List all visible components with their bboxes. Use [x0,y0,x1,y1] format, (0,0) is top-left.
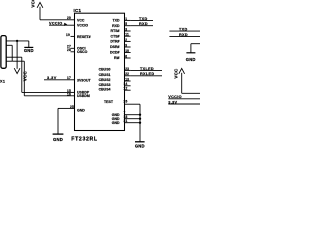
svg-text:GND: GND [135,143,145,148]
svg-text:3V3OUT: 3V3OUT [77,78,91,82]
svg-text:GND: GND [186,57,196,62]
svg-text:21: 21 [124,119,128,123]
svg-text:20: 20 [67,16,71,20]
svg-text:12: 12 [124,87,128,91]
svg-text:16: 16 [67,92,71,96]
svg-text:19: 19 [66,33,70,37]
svg-text:VCC: VCC [23,71,28,82]
svg-text:DSR#: DSR# [110,45,119,49]
svg-text:TXD: TXD [113,19,120,23]
svg-text:VCC: VCC [174,68,179,79]
svg-text:RXD: RXD [112,24,120,28]
svg-text:3.3V: 3.3V [168,100,177,104]
svg-text:14: 14 [124,82,128,86]
svg-text:RESET#: RESET# [77,35,91,39]
svg-text:VCC: VCC [77,18,85,22]
svg-text:GND: GND [77,109,85,113]
svg-text:OSCO: OSCO [77,50,88,54]
svg-text:26: 26 [124,100,128,104]
svg-text:CTS#: CTS# [111,34,120,38]
svg-text:11: 11 [125,33,129,37]
svg-text:6: 6 [125,54,127,58]
svg-text:17: 17 [67,76,71,80]
svg-text:13: 13 [125,77,129,81]
svg-text:23: 23 [125,67,129,71]
svg-text:1: 1 [125,17,127,21]
svg-text:2: 2 [125,38,127,42]
svg-text:GND: GND [112,121,120,125]
svg-text:3: 3 [125,27,127,31]
svg-text:GND: GND [53,137,63,142]
svg-text:10: 10 [125,49,129,53]
svg-text:RXLED: RXLED [140,72,154,76]
svg-text:GND: GND [24,48,34,53]
svg-text:TXD: TXD [139,17,148,21]
svg-text:22: 22 [125,72,129,76]
svg-text:CBUS0: CBUS0 [99,68,111,72]
svg-text:TEST: TEST [104,100,114,104]
svg-text:3.3V: 3.3V [47,76,57,80]
svg-text:CBUS3: CBUS3 [99,83,111,87]
svg-text:IC1: IC1 [74,8,82,13]
svg-text:VCCIO: VCCIO [168,95,182,99]
svg-text:FT232RL: FT232RL [71,136,98,142]
svg-text:DTR#: DTR# [110,40,119,44]
svg-text:28: 28 [67,48,71,52]
svg-text:CBUS1: CBUS1 [99,73,111,77]
svg-text:CBUS4: CBUS4 [99,88,111,92]
svg-text:TXD: TXD [179,28,188,32]
svg-text:TXLED: TXLED [140,67,154,71]
svg-text:RXD: RXD [179,33,188,37]
svg-text:5: 5 [125,22,127,26]
svg-text:25: 25 [70,105,74,109]
svg-text:VCCIO: VCCIO [77,24,88,28]
svg-text:9: 9 [125,43,127,47]
svg-text:CBUS2: CBUS2 [99,78,111,82]
svg-text:VCC: VCC [31,0,36,8]
svg-text:RI#: RI# [114,56,120,60]
svg-text:RTS#: RTS# [111,29,120,33]
svg-text:VCCIO: VCCIO [49,22,63,26]
svg-text:RXD: RXD [139,22,148,26]
svg-text:X1: X1 [0,80,5,84]
svg-text:USBDM: USBDM [77,94,90,98]
svg-text:DCD#: DCD# [110,51,120,55]
